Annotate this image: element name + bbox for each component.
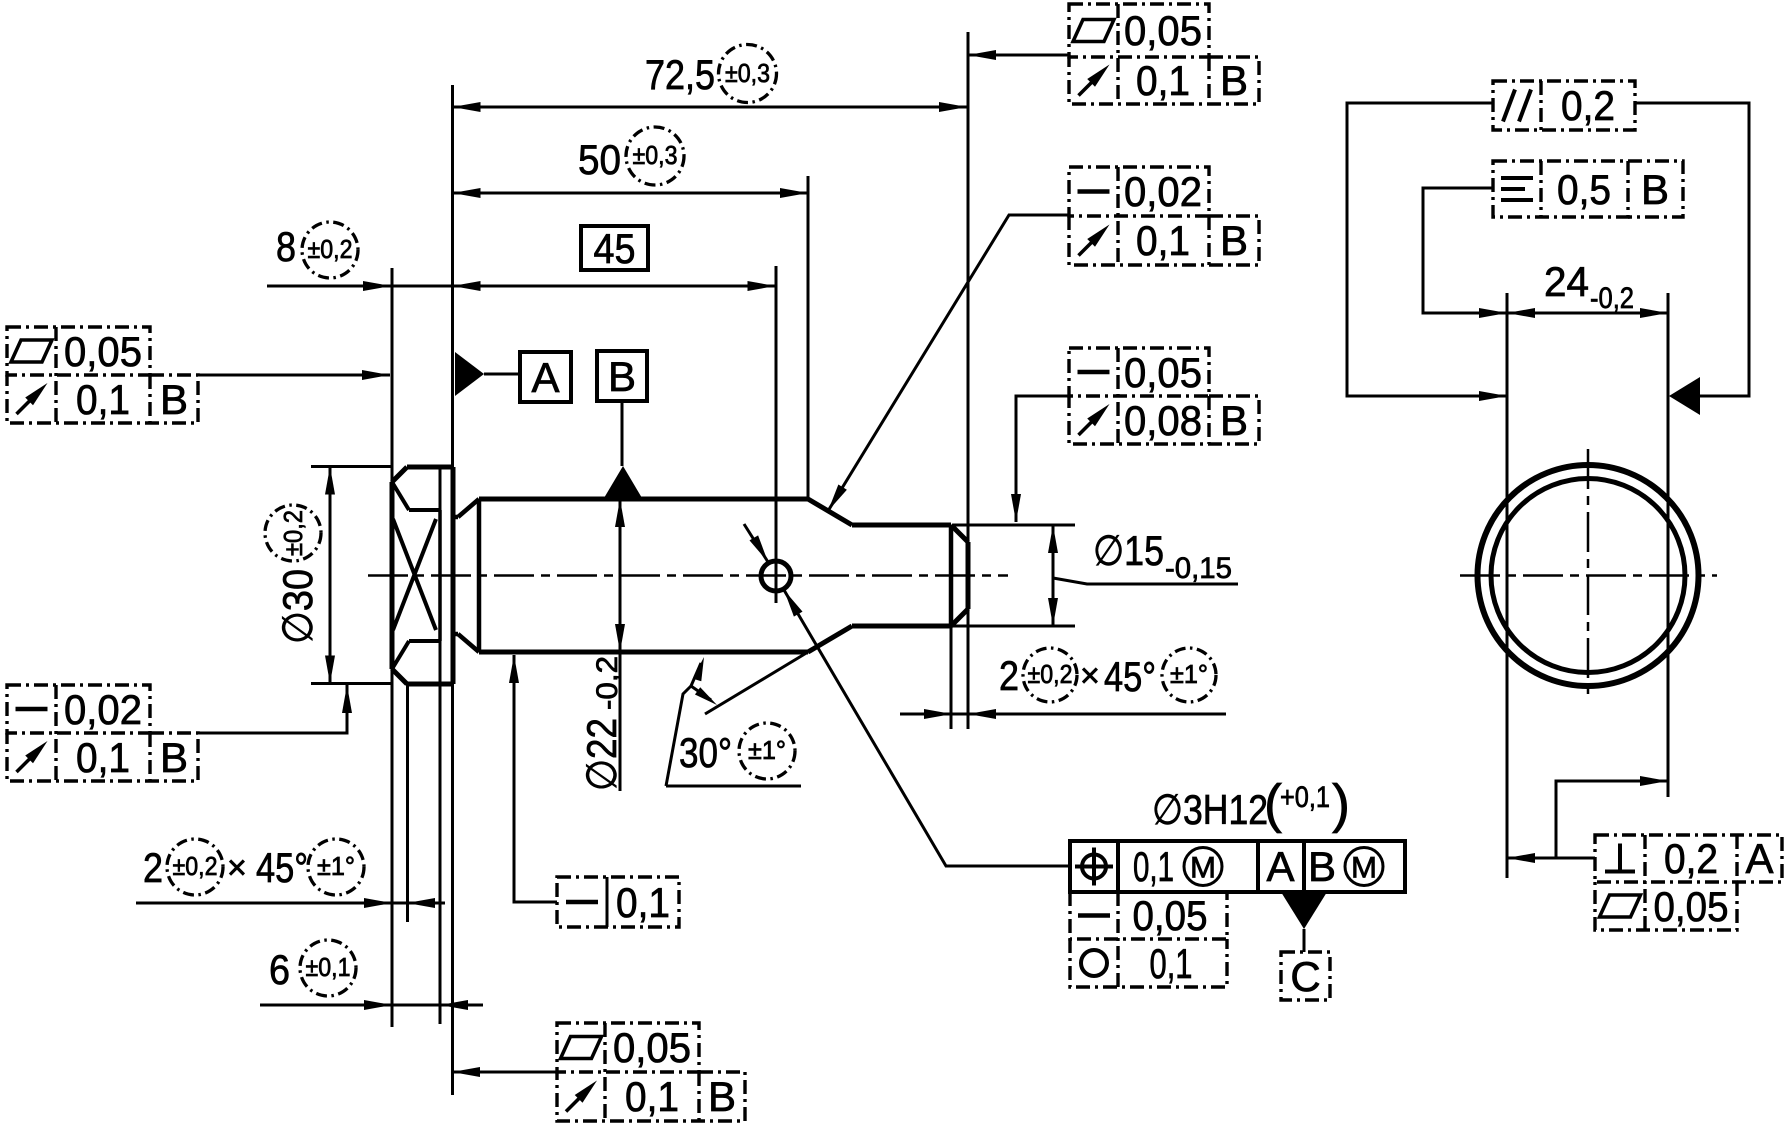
svg-text:-0,2: -0,2 <box>591 656 624 710</box>
svg-text:0,1: 0,1 <box>1136 57 1190 104</box>
svg-text:±1°: ±1° <box>1170 659 1208 689</box>
svg-text:0,05: 0,05 <box>1124 349 1202 396</box>
svg-text:B: B <box>608 353 636 400</box>
svg-text:B: B <box>160 734 188 781</box>
svg-text:B: B <box>708 1073 736 1120</box>
svg-text:∅3H12: ∅3H12 <box>1152 786 1268 833</box>
svg-text:A: A <box>1266 843 1294 890</box>
svg-text:+0,1: +0,1 <box>1280 781 1330 814</box>
svg-text:B: B <box>1220 397 1248 444</box>
svg-text:0,1: 0,1 <box>1133 843 1174 890</box>
svg-text:M: M <box>1351 852 1377 885</box>
svg-text:0,05: 0,05 <box>613 1024 691 1071</box>
svg-text:2: 2 <box>143 844 163 891</box>
svg-text:45°: 45° <box>256 844 308 891</box>
svg-text:8: 8 <box>276 223 296 270</box>
svg-text:0,2: 0,2 <box>1561 82 1615 129</box>
svg-text:0,05: 0,05 <box>64 328 142 375</box>
svg-text:±0,3: ±0,3 <box>725 58 770 88</box>
svg-text:45: 45 <box>594 225 636 272</box>
svg-text:0,1: 0,1 <box>76 734 130 781</box>
svg-text:B: B <box>1220 57 1248 104</box>
svg-text:2: 2 <box>999 652 1019 699</box>
svg-text:0,5: 0,5 <box>1557 166 1611 213</box>
svg-text:0,1: 0,1 <box>625 1073 679 1120</box>
svg-text:0,1: 0,1 <box>1150 940 1193 987</box>
svg-text:B: B <box>160 376 188 423</box>
svg-text:30°: 30° <box>679 729 732 776</box>
svg-text:C: C <box>1290 953 1320 1000</box>
svg-text:0,02: 0,02 <box>64 686 142 733</box>
svg-text:±0,2: ±0,2 <box>173 851 218 881</box>
svg-text:B: B <box>1220 217 1248 264</box>
svg-text:-0,15: -0,15 <box>1165 552 1232 585</box>
svg-text:A: A <box>531 354 559 401</box>
svg-text:A: A <box>1745 835 1773 882</box>
svg-text:0,05: 0,05 <box>1133 892 1208 939</box>
svg-text:0,02: 0,02 <box>1124 168 1202 215</box>
svg-text:45°: 45° <box>1104 653 1156 700</box>
svg-text:B: B <box>1308 843 1336 890</box>
svg-text:0,2: 0,2 <box>1664 835 1718 882</box>
svg-text:): ) <box>1332 774 1350 834</box>
svg-text:0,05: 0,05 <box>1654 883 1729 930</box>
svg-text:24: 24 <box>1544 258 1589 305</box>
svg-text:0,05: 0,05 <box>1124 7 1202 54</box>
svg-text:±1°: ±1° <box>317 851 355 881</box>
svg-text:±0,2: ±0,2 <box>308 234 353 264</box>
svg-text:0,1: 0,1 <box>1136 217 1190 264</box>
svg-text:±0,2: ±0,2 <box>278 510 308 556</box>
svg-text:±1°: ±1° <box>748 735 786 765</box>
svg-text:B: B <box>1641 166 1669 213</box>
svg-text:M: M <box>1190 852 1216 885</box>
svg-text:±0,3: ±0,3 <box>633 140 678 170</box>
svg-text:∅15: ∅15 <box>1093 527 1164 574</box>
svg-text:∅22: ∅22 <box>578 718 625 791</box>
svg-text:×: × <box>227 849 247 887</box>
svg-text:0,1: 0,1 <box>616 879 670 926</box>
svg-text:0,1: 0,1 <box>76 376 130 423</box>
svg-text:×: × <box>1080 657 1100 695</box>
svg-text:6: 6 <box>269 946 290 993</box>
svg-text:0,08: 0,08 <box>1124 397 1202 444</box>
svg-text:-0,2: -0,2 <box>1590 282 1634 315</box>
svg-text:±0,1: ±0,1 <box>306 952 351 982</box>
svg-text:50: 50 <box>578 136 621 183</box>
svg-text:±0,2: ±0,2 <box>1028 659 1073 689</box>
svg-text:∅30: ∅30 <box>274 569 321 644</box>
svg-text:72,5: 72,5 <box>645 51 715 98</box>
